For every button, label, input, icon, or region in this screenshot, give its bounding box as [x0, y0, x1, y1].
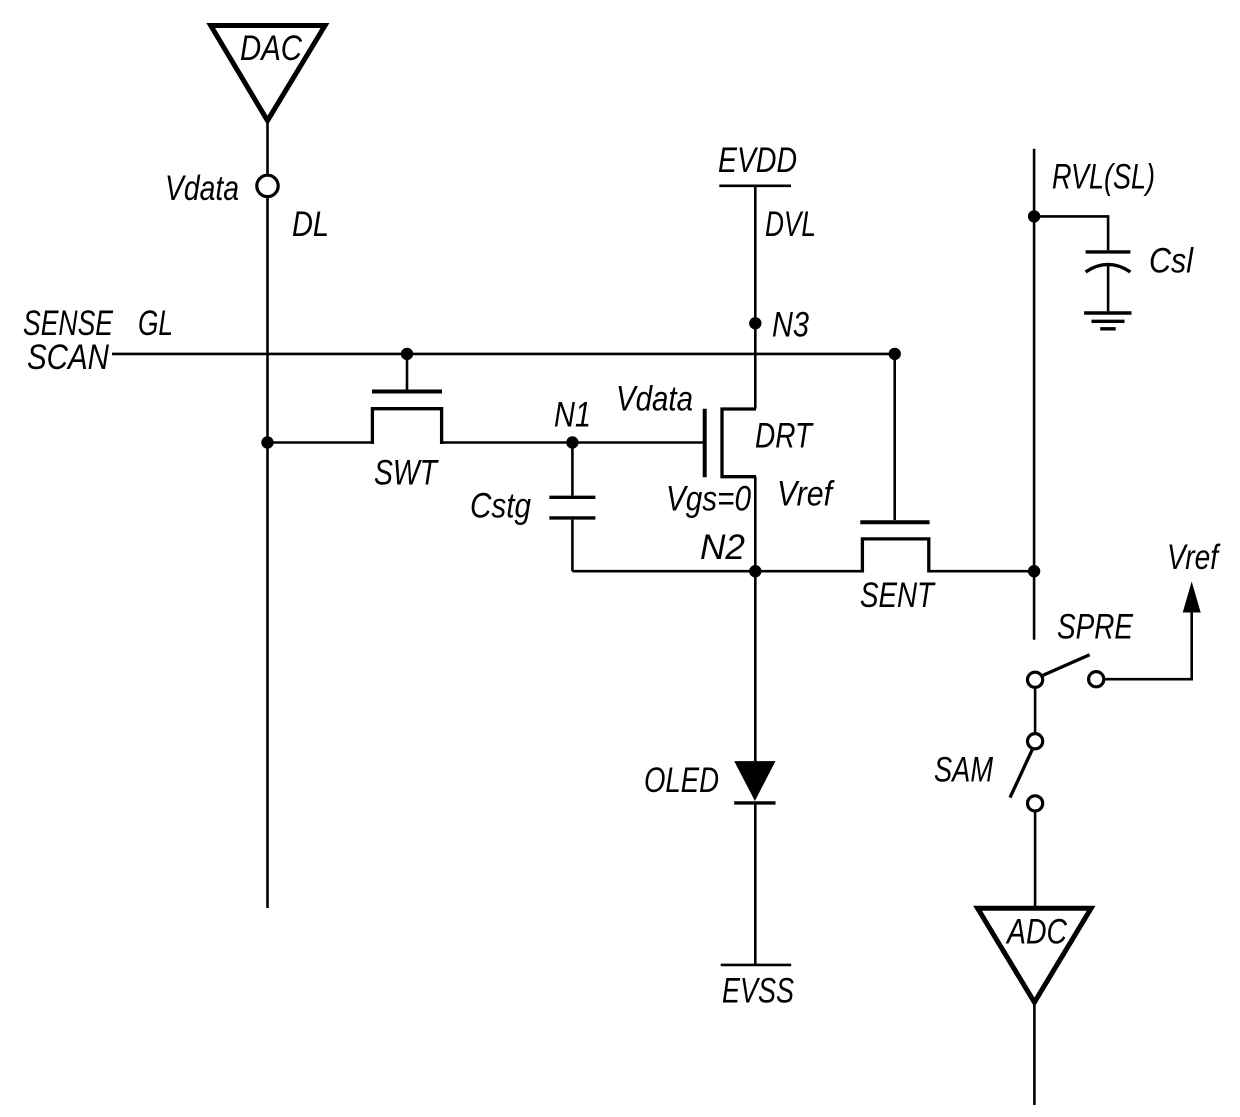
svg-text:DAC: DAC	[240, 29, 303, 68]
svg-text:Vgs=0: Vgs=0	[666, 480, 751, 519]
capacitor Csl	[1034, 216, 1130, 311]
svg-text:DRT: DRT	[755, 417, 814, 456]
svg-text:OLED: OLED	[644, 761, 719, 800]
wire: SPRE to Vref arrow	[1105, 611, 1191, 679]
svg-text:SCAN: SCAN	[27, 338, 110, 377]
DAC U1 (triangle DAC symbol)	[211, 26, 325, 121]
switch SPRE	[1028, 655, 1104, 688]
svg-text:Cstg: Cstg	[470, 487, 531, 526]
svg-text:RVL(SL): RVL(SL)	[1052, 158, 1155, 197]
arrow to Vref	[1183, 582, 1201, 613]
ADC U2 (triangle ADC symbol)	[978, 908, 1092, 1002]
svg-text:SPRE: SPRE	[1057, 608, 1134, 647]
svg-text:GL: GL	[138, 304, 173, 343]
svg-text:N3: N3	[772, 306, 809, 345]
svg-text:EVSS: EVSS	[722, 972, 794, 1011]
wire: DRT source to N2	[754, 477, 757, 572]
wire: SPRE to SAM	[1034, 688, 1037, 733]
svg-text:Vdata: Vdata	[616, 380, 693, 419]
svg-text:Csl: Csl	[1149, 242, 1194, 281]
svg-text:N1: N1	[554, 396, 591, 435]
wire: N2 to OLED anode	[754, 571, 757, 761]
svg-text:EVDD: EVDD	[718, 141, 797, 180]
wire: DL from DAC apex to Vdata terminal	[266, 121, 269, 176]
transistor DRT	[705, 409, 756, 477]
diode OLED	[734, 761, 775, 803]
wire: OLED cathode to EVSS	[754, 805, 757, 965]
svg-text:DVL: DVL	[765, 205, 816, 244]
junction: GL to SENT gate	[889, 348, 901, 360]
terminal Vdata (open circle)	[257, 175, 278, 196]
wire: ADC output	[1033, 1002, 1036, 1105]
switch SAM	[1010, 734, 1043, 811]
junction: N2 branch on RVL	[1028, 565, 1040, 577]
wire: N2 rail (Cstg to SENT)	[572, 570, 862, 573]
svg-text:N2: N2	[700, 528, 745, 567]
transistor SENT	[860, 354, 929, 573]
node N1 (junction dot)	[566, 436, 578, 448]
power rail EVDD (bar)	[719, 185, 791, 188]
power rail EVSS (bar)	[721, 964, 792, 967]
junction: RVL to Csl tap	[1028, 210, 1040, 222]
node N3 (junction dot)	[749, 317, 761, 329]
wire: SAM to ADC	[1034, 811, 1037, 908]
svg-text:Vdata: Vdata	[165, 169, 239, 208]
wire: drive voltage line DVL	[754, 186, 757, 409]
ground	[1084, 313, 1131, 329]
transistor SWT	[372, 354, 442, 444]
svg-text:SENT: SENT	[860, 576, 936, 615]
wire: data line DL	[266, 197, 269, 908]
junction: GL to SWT gate	[401, 348, 413, 360]
wire: DL to SWT	[268, 441, 373, 444]
junction: DL to SWT source	[261, 436, 273, 448]
svg-text:ADC: ADC	[1005, 913, 1067, 952]
wire: SENT drain to RVL	[929, 570, 1034, 573]
wire: gate line GL	[112, 353, 895, 356]
svg-text:DL: DL	[292, 205, 329, 244]
svg-text:Vref: Vref	[1167, 538, 1221, 577]
svg-text:SWT: SWT	[374, 454, 439, 493]
wire: SWT to N1 to DRT gate	[442, 441, 703, 444]
node N2 (junction dot)	[749, 565, 761, 577]
svg-text:SAM: SAM	[934, 751, 994, 790]
capacitor Cstg	[549, 443, 595, 572]
wire: readout line RVL(SL)	[1033, 149, 1036, 640]
svg-text:Vref: Vref	[777, 475, 835, 514]
